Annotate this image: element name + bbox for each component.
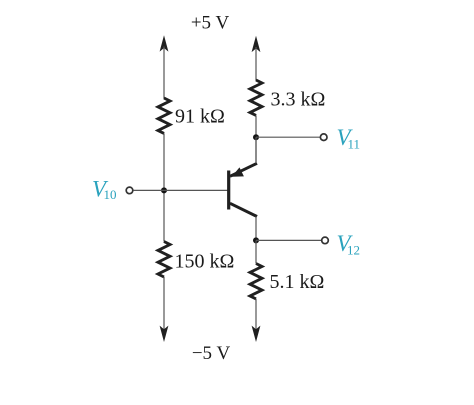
label V11 [337, 125, 361, 152]
terminal V12 open circle [322, 237, 329, 244]
label V12 [337, 231, 361, 258]
svg-text:10: 10 [104, 187, 117, 202]
wire: left rail top segment [163, 47, 165, 99]
svg-text:−5 V: −5 V [192, 343, 231, 364]
svg-text:91 kΩ: 91 kΩ [175, 106, 225, 128]
node: emitter / V11 junction [253, 134, 259, 140]
svg-text:3.3 kΩ: 3.3 kΩ [271, 89, 326, 111]
collector lead [230, 203, 257, 216]
wire: V12 output [256, 239, 321, 241]
left rail bottom arrow (to -5 V) [160, 326, 169, 342]
svg-text:+5 V: +5 V [191, 13, 230, 34]
wire: V11 output [256, 136, 320, 138]
wire: left rail middle segment [163, 133, 165, 241]
node: base divider junction [161, 187, 167, 193]
terminal V10 open circle [126, 187, 133, 194]
wire: emitter to V11 node [255, 137, 257, 163]
resistor R3 3.3 kOhm [250, 80, 262, 115]
svg-text:150 kΩ: 150 kΩ [175, 251, 235, 273]
wire: V10 input to transistor base [133, 189, 227, 191]
label V10 [92, 177, 117, 203]
wire: left rail bottom segment [163, 277, 165, 330]
terminal V11 open circle [320, 134, 327, 141]
svg-text:5.1 kΩ: 5.1 kΩ [270, 271, 325, 293]
right rail top arrow (to +5 V) [252, 36, 261, 52]
base bar [227, 171, 230, 210]
wire: V12 node to 5.1k [255, 240, 257, 263]
emitter lead (with arrow toward base) [230, 163, 257, 176]
node: collector / V12 junction [253, 237, 259, 243]
svg-text:11: 11 [348, 137, 361, 152]
right rail bottom arrow (to -5 V) [252, 326, 261, 342]
wire: collector to V12 node [255, 217, 257, 242]
resistor R2 150 kOhm [158, 242, 170, 278]
resistor R4 5.1 kOhm [250, 264, 262, 299]
svg-text:12: 12 [347, 243, 360, 258]
transistor Q1 (pnp) [229, 163, 257, 216]
resistor R1 91 kOhm [158, 98, 170, 133]
wire: 3.3k to emitter [255, 115, 257, 163]
wire: right rail top segment [255, 47, 257, 81]
wire: right rail bottom segment [255, 299, 257, 330]
left rail top arrow (to +5 V) [160, 35, 169, 51]
